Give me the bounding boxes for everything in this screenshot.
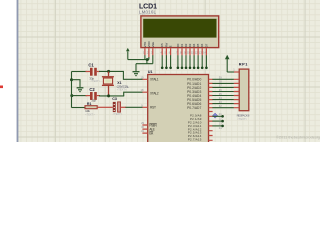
LCD1 pin numbers 1-14 bbox=[143, 51, 207, 55]
svg-text:<TEXT>: <TEXT> bbox=[85, 112, 95, 116]
svg-text:33p: 33p bbox=[91, 99, 96, 103]
capacitor C2 bbox=[86, 92, 101, 100]
ground rail left (vertical) bbox=[71, 72, 73, 108]
svg-text:RESPACK-8: RESPACK-8 bbox=[237, 113, 250, 117]
ground symbol (oscillator) bbox=[77, 88, 84, 92]
LCD1 body box bbox=[141, 16, 219, 48]
wire VSS pin down to VDD rail bbox=[144, 55, 146, 59]
LCD1 reference label bbox=[139, 4, 157, 11]
svg-text:XTAL2: XTAL2 bbox=[150, 91, 159, 95]
LCD1 pin name labels (vertical) bbox=[143, 41, 209, 47]
PSEN overline bbox=[149, 122, 156, 124]
wire VDD pin down bbox=[148, 57, 150, 60]
wires P0.0-P0.7 to RP1 bbox=[212, 79, 234, 107]
LCD1 text placeholder bbox=[138, 12, 148, 16]
wire P2.2 stub with junction dot bbox=[212, 120, 224, 123]
resistor R1 reference label bbox=[87, 102, 92, 106]
LCD1 pin stubs bbox=[145, 48, 207, 57]
svg-text:XTAL1: XTAL1 bbox=[150, 77, 159, 81]
svg-text:P0.7/AD7: P0.7/AD7 bbox=[187, 106, 201, 110]
svg-text:<TEXT>: <TEXT> bbox=[113, 112, 123, 116]
U1 left pin stubs (XTAL1, XTAL2, RST, PSEN, ALE, EA) bbox=[142, 79, 147, 133]
capacitor C1 reference label bbox=[88, 62, 94, 67]
wire gnd rail to C2 bbox=[72, 95, 88, 97]
wire RS down with junction dot bbox=[161, 55, 164, 69]
svg-text:C1: C1 bbox=[88, 62, 94, 67]
RP1 reference label bbox=[239, 62, 249, 67]
svg-text:P2.7/A15: P2.7/A15 bbox=[188, 138, 202, 142]
capacitor C1 value label bbox=[89, 76, 94, 80]
U1 right pin stubs P0 bbox=[209, 79, 213, 107]
editor margin divider line bbox=[17, 0, 19, 142]
grid major lines bbox=[18, 0, 320, 142]
wire gnd rail to R1 bbox=[72, 107, 86, 109]
wire gnd rail to C1 bbox=[72, 71, 88, 73]
power symbol +5V (left of LCD) bbox=[126, 48, 130, 60]
svg-text:C2: C2 bbox=[89, 87, 95, 92]
crystal X1 value label CRYSTAL bbox=[117, 85, 130, 89]
U1 right pin numbers 39-32 bbox=[219, 76, 222, 108]
capacitor C3 reference label bbox=[112, 97, 117, 101]
junction crystal top node bbox=[107, 70, 110, 73]
crystal X1 bbox=[102, 72, 114, 95]
LCD1 screen bbox=[143, 19, 216, 38]
RP1 text placeholder bbox=[237, 117, 247, 121]
wire ground rail under LCD bbox=[136, 63, 153, 65]
wire C3 to RST pin 9 bbox=[121, 106, 143, 108]
svg-text:D7: D7 bbox=[204, 43, 208, 47]
resistor R1 value label 10k bbox=[85, 109, 90, 113]
wire RW down with junction dot bbox=[165, 55, 168, 69]
U1 right pin names P0.0-P0.7 bbox=[187, 78, 201, 110]
LCD1 value label LM016L bbox=[139, 10, 157, 15]
wire to ground symbol bbox=[72, 80, 81, 88]
U1 body bbox=[148, 75, 209, 144]
svg-text:RST: RST bbox=[150, 105, 156, 109]
RP1 left pin stubs 2-9 bbox=[234, 79, 239, 107]
wire C1 to crystal top node bbox=[99, 70, 124, 72]
wire P2.1 stub with junction dot bbox=[212, 115, 224, 118]
U1 left pin numbers 19 18 9 29 30 31 bbox=[141, 75, 145, 133]
svg-text:©2011 thebestmicrodesign: ©2011 thebestmicrodesign bbox=[276, 134, 320, 139]
RP1 body bbox=[239, 69, 249, 111]
wire VEE pin down to ground rail bbox=[152, 55, 154, 64]
wire XTAL2 net (up and right to pin 18) bbox=[124, 92, 143, 96]
wire VDD junction down to ground rail bbox=[146, 60, 148, 64]
U1 right pin names P2.0-P2.7 bbox=[188, 114, 202, 142]
X1 text placeholder bbox=[117, 87, 127, 91]
net label marker (blue diamond) on P2.0 bbox=[213, 113, 218, 118]
capacitor C2 value label bbox=[91, 99, 96, 103]
watermark bbox=[276, 134, 320, 139]
svg-text:C3: C3 bbox=[112, 97, 117, 101]
wire E down with junction dot bbox=[169, 55, 172, 69]
svg-text:E: E bbox=[169, 45, 173, 47]
svg-text:U1: U1 bbox=[148, 70, 153, 74]
C3 text placeholder bbox=[113, 112, 123, 116]
svg-text:VEE: VEE bbox=[151, 42, 155, 48]
wire power to RP1 pin 1 bbox=[227, 71, 234, 73]
svg-text:<TEXT>: <TEXT> bbox=[91, 79, 101, 83]
wire R1 to C3 bbox=[97, 106, 113, 108]
red overview marker on margin bbox=[0, 86, 3, 89]
wire XTAL1 net (down and right to pin 19) bbox=[123, 71, 142, 79]
RP1 pin 1 stub bbox=[234, 71, 239, 73]
ground symbol under LCD bbox=[133, 64, 140, 76]
junction VDD node bbox=[146, 58, 149, 61]
wire P2.3 stub with junction dot bbox=[212, 125, 224, 128]
R1 text placeholder bbox=[85, 112, 95, 116]
U1 right pin stubs P2 bbox=[209, 112, 213, 141]
junction gnd rail / C2 node bbox=[70, 94, 73, 97]
RP1 value label RESPACK-8 bbox=[237, 113, 250, 117]
power symbol +5V (RP1 common) bbox=[225, 55, 230, 72]
svg-text:RP1: RP1 bbox=[239, 62, 249, 67]
RP1 pin 1 number bbox=[233, 68, 235, 72]
capacitor C3 (polarized) bbox=[113, 102, 121, 112]
U1 reference label bbox=[148, 70, 153, 74]
U1 left pin names bbox=[149, 77, 158, 135]
EA overline bbox=[149, 130, 153, 132]
C1 text placeholder bbox=[91, 79, 101, 83]
svg-text:<TEXT>: <TEXT> bbox=[117, 87, 127, 91]
U1 right pin numbers 21-24 bbox=[219, 112, 222, 130]
capacitor C1 bbox=[86, 68, 101, 76]
svg-text:<TEXT>: <TEXT> bbox=[237, 117, 247, 121]
editor left margin (white) bbox=[0, 0, 17, 142]
junction ground branch node bbox=[70, 78, 73, 81]
grid minor lines bbox=[18, 0, 320, 142]
junction crystal bottom node bbox=[107, 94, 110, 97]
capacitor C2 reference label bbox=[89, 87, 95, 92]
wire power to VDD pin (horizontal) bbox=[128, 59, 149, 61]
wires D0-D7 down with junction dots bbox=[177, 55, 208, 69]
crystal X1 reference label bbox=[117, 81, 121, 85]
wire C2 to crystal bottom node bbox=[99, 95, 124, 97]
resistor R1 bbox=[85, 106, 97, 109]
schematic sheet background bbox=[0, 0, 320, 142]
